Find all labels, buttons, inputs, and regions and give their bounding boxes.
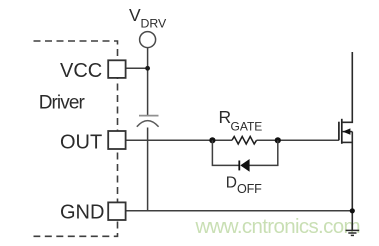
node VDRV-VCC wire (vertical rail) bbox=[147, 48, 149, 211]
svg-text:V: V bbox=[129, 5, 141, 25]
wire GND line bbox=[126, 210, 353, 212]
svg-text:D: D bbox=[226, 174, 237, 191]
pin square VCC bbox=[108, 60, 125, 78]
svg-text:GATE: GATE bbox=[231, 120, 263, 134]
svg-text:OFF: OFF bbox=[237, 182, 262, 196]
svg-text:www.cntronics.com: www.cntronics.com bbox=[195, 215, 360, 238]
wire source down bbox=[351, 132, 353, 231]
svg-text:GND: GND bbox=[60, 202, 104, 224]
transistor Q1 MOSFET gate bar bbox=[338, 122, 340, 141]
power source V_DRV bbox=[140, 32, 156, 48]
svg-text:VCC: VCC bbox=[60, 60, 102, 82]
junction node VCC rail bbox=[145, 66, 150, 71]
svg-text:OUT: OUT bbox=[60, 131, 102, 153]
transistor Q1 body line and arrow bbox=[342, 131, 353, 133]
wire diode branch bbox=[212, 140, 277, 165]
pin square OUT bbox=[108, 131, 125, 149]
diode D_OFF bbox=[238, 161, 240, 171]
transistor Q1 drain stub bbox=[342, 52, 353, 122]
transistor Q1 source stub bbox=[342, 141, 353, 143]
junction node gate-right bbox=[275, 137, 281, 143]
wire OUT line bbox=[126, 139, 339, 141]
svg-text:Driver: Driver bbox=[39, 93, 86, 114]
wire VCC pin to rail bbox=[126, 67, 148, 69]
junction node gate-left bbox=[209, 137, 215, 143]
driver dashed box bbox=[34, 41, 118, 236]
capacitor bypass C bbox=[137, 116, 159, 127]
resistor R_GATE bbox=[232, 137, 257, 145]
svg-text:R: R bbox=[219, 107, 232, 127]
pin square GND bbox=[108, 202, 125, 220]
ground bbox=[346, 230, 360, 235]
svg-text:DRV: DRV bbox=[141, 17, 168, 31]
junction node source-GND bbox=[350, 208, 355, 213]
transistor Q1 channel bar bbox=[341, 119, 343, 144]
